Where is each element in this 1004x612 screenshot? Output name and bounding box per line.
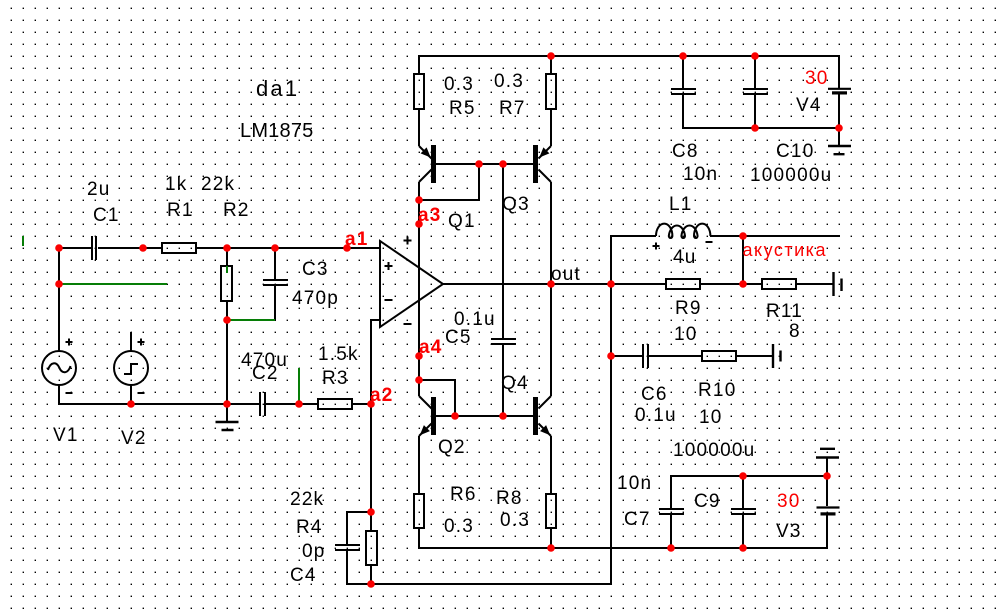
transistor Q4 xyxy=(533,396,551,436)
svg-text:470p: 470p xyxy=(292,288,339,309)
capacitor C7 xyxy=(659,509,684,514)
node C5 top xyxy=(499,160,507,168)
wire Q1 collector to Q2 collector through opamp supplies xyxy=(418,182,420,396)
node R4 bottom xyxy=(367,580,375,588)
svg-text:R9: R9 xyxy=(675,298,702,319)
svg-text:R4: R4 xyxy=(296,517,323,538)
wire V4 bottom lead xyxy=(838,94,840,128)
wire V1 bottom to C2 xyxy=(59,385,259,404)
svg-text:R3: R3 xyxy=(322,368,349,389)
wire ground lead above V3 xyxy=(826,458,828,476)
svg-text:10: 10 xyxy=(674,324,698,345)
wire C9 top lead xyxy=(742,476,744,508)
wire out node through R9 R11 to ground xyxy=(443,283,833,285)
svg-text:0p: 0p xyxy=(302,541,326,562)
svg-text:C3: C3 xyxy=(302,259,329,280)
svg-text:a4: a4 xyxy=(419,337,443,358)
wire Q1 base-collector tie xyxy=(419,164,479,200)
svg-text:100000u: 100000u xyxy=(673,440,755,461)
battery V4 xyxy=(828,88,851,90)
wire opamp -input down to a2 and R4 xyxy=(371,320,380,584)
node Q2 base tie xyxy=(451,412,459,420)
resistor R6 xyxy=(414,494,424,528)
op-amp U1 xyxy=(380,237,443,328)
svg-text:R5: R5 xyxy=(449,98,476,119)
svg-text:2u: 2u xyxy=(87,179,111,200)
transistor Q3 xyxy=(533,145,551,183)
capacitor C4 xyxy=(335,545,360,550)
resistor R5 xyxy=(414,74,424,109)
wire R7 top lead xyxy=(550,56,552,146)
wire C10 bottom lead xyxy=(754,94,756,128)
wire green R2 to C3 xyxy=(227,319,275,321)
node a1 xyxy=(343,244,351,252)
wire Q2-Q4 base bus xyxy=(436,415,533,417)
wire C7 top lead and V- cap bank rail xyxy=(671,476,827,508)
wire Q2 emitter through R6 to V- rail xyxy=(419,436,827,548)
capacitor C8 xyxy=(671,89,696,94)
wire V+ rail with R5 lead and V4 lead xyxy=(419,56,839,146)
node ground bottom xyxy=(223,400,231,408)
node C5 bottom xyxy=(499,412,507,420)
svg-text:22k: 22k xyxy=(290,489,324,510)
svg-text:V4: V4 xyxy=(796,95,822,116)
capacitor C6 xyxy=(643,344,648,368)
svg-text:LM1875: LM1875 xyxy=(240,120,313,142)
svg-text:10: 10 xyxy=(699,407,723,428)
wire V2 top stub xyxy=(130,332,132,351)
svg-text:R11: R11 xyxy=(766,301,803,322)
svg-text:Q2: Q2 xyxy=(438,437,466,458)
node input xyxy=(55,244,63,252)
node a2 xyxy=(367,400,375,408)
node R1-R2 xyxy=(223,244,231,252)
svg-text:Q1: Q1 xyxy=(448,211,476,232)
svg-text:100000u: 100000u xyxy=(750,165,832,186)
svg-text:R7: R7 xyxy=(499,98,526,119)
wire C4 branch top xyxy=(347,512,371,544)
svg-text:a1: a1 xyxy=(345,229,369,250)
svg-text:0.1u: 0.1u xyxy=(635,405,677,426)
svg-text:Q4: Q4 xyxy=(501,373,529,394)
svg-text:22k: 22k xyxy=(201,174,235,195)
svg-text:10n: 10n xyxy=(683,164,718,185)
svg-text:8: 8 xyxy=(789,321,801,342)
node out feedback xyxy=(607,280,615,288)
node Q1 collector tie xyxy=(415,196,423,204)
source V1 xyxy=(42,339,76,394)
svg-text:a3: a3 xyxy=(418,205,442,226)
ground below V4 xyxy=(828,146,851,154)
node V3 top xyxy=(823,472,831,480)
inductor L1 xyxy=(653,224,713,250)
capacitor C5 xyxy=(491,339,516,344)
node C1-R1 xyxy=(139,244,147,252)
node V1 green xyxy=(55,280,63,288)
svg-text:1k: 1k xyxy=(165,174,187,195)
resistor R4 xyxy=(366,531,377,565)
svg-text:C8: C8 xyxy=(672,141,699,162)
wire C3 bottom lead xyxy=(274,286,276,320)
wire Q3 collector to Q4 collector through out xyxy=(550,182,552,396)
wire green input mark xyxy=(22,236,24,246)
wire C6 through R10 to ground xyxy=(649,355,772,357)
node C10 bottom xyxy=(751,124,759,132)
svg-text:C7: C7 xyxy=(624,509,651,530)
resistor R7 xyxy=(546,74,556,109)
node R4 top xyxy=(367,508,375,516)
node Q2 collector tie xyxy=(415,376,423,384)
svg-text:V1: V1 xyxy=(53,425,79,446)
battery V3 xyxy=(817,506,840,508)
wire C8 top lead xyxy=(682,56,684,89)
wire C8 bottom to ground rail of V4 xyxy=(683,94,839,146)
wire out to C6 xyxy=(611,355,642,357)
svg-text:4u: 4u xyxy=(673,247,697,268)
svg-text:C6: C6 xyxy=(641,384,668,405)
svg-text:C1: C1 xyxy=(93,205,120,226)
node R2-C3 xyxy=(271,244,279,252)
node C6 branch xyxy=(607,352,615,360)
svg-text:out: out xyxy=(551,264,581,285)
svg-text:30: 30 xyxy=(805,68,829,89)
resistor R3 xyxy=(318,399,352,409)
svg-text:C5: C5 xyxy=(445,327,472,348)
svg-text:R6: R6 xyxy=(450,484,477,505)
wire feedback bottom run up to L1 xyxy=(371,236,656,584)
svg-text:a2: a2 xyxy=(370,385,394,406)
source V2 xyxy=(114,339,148,394)
svg-text:C4: C4 xyxy=(290,565,317,586)
svg-text:R8: R8 xyxy=(496,488,523,509)
node Q1 base xyxy=(475,160,483,168)
wire V3 bottom lead xyxy=(826,515,828,548)
svg-text:0.3: 0.3 xyxy=(494,71,524,92)
transistor Q2 xyxy=(419,396,436,436)
capacitor C10 xyxy=(743,89,768,94)
ground below C2 junction xyxy=(216,422,239,430)
node out Q3 xyxy=(547,280,555,288)
capacitor C2 xyxy=(260,392,265,416)
capacitor C9 xyxy=(731,509,756,514)
node a3 xyxy=(415,220,423,228)
wire green stub above C2-R3 junction xyxy=(298,368,300,403)
wire акустика vertical xyxy=(742,236,744,284)
capacitor C3 xyxy=(263,280,288,285)
wire C3 top lead xyxy=(274,248,276,279)
node C8 top xyxy=(679,52,687,60)
resistor R11 xyxy=(762,279,796,289)
svg-text:C9: C9 xyxy=(694,491,721,512)
wire Q2 collector-base tie xyxy=(419,380,455,416)
wire L1 to акустика node xyxy=(710,235,840,237)
ground above V3 xyxy=(816,449,839,458)
node R7 top xyxy=(547,52,555,60)
transistor Q1 xyxy=(419,145,436,183)
resistor R1 xyxy=(162,243,196,253)
wire C7 bottom lead xyxy=(670,515,672,548)
svg-text:0.3: 0.3 xyxy=(444,516,474,537)
node акустика xyxy=(739,232,747,240)
resistor R8 xyxy=(546,494,556,528)
resistor R9 xyxy=(666,279,700,289)
wire C1 to opamp +input through R1 xyxy=(98,247,380,249)
svg-text:C2: C2 xyxy=(252,363,279,384)
wire C5 top lead xyxy=(502,164,504,338)
wire C5 bottom lead xyxy=(502,345,504,416)
svg-text:R2: R2 xyxy=(223,200,250,221)
svg-text:акустика: акустика xyxy=(743,240,827,260)
svg-text:0.3: 0.3 xyxy=(500,510,530,531)
node C10 top xyxy=(751,52,759,60)
svg-text:C10: C10 xyxy=(776,141,814,162)
svg-text:0.3: 0.3 xyxy=(444,74,474,95)
svg-text:V2: V2 xyxy=(121,428,147,449)
node C2-R3 xyxy=(295,400,303,408)
node L1-R9 xyxy=(739,280,747,288)
svg-text:V3: V3 xyxy=(776,521,802,542)
wire Q4 emitter through R8 xyxy=(550,436,552,548)
svg-text:R10: R10 xyxy=(698,380,736,401)
svg-text:Q3: Q3 xyxy=(502,194,530,215)
svg-text:da1: da1 xyxy=(256,76,299,101)
wire V3 top lead xyxy=(826,476,828,506)
ground right of R10 xyxy=(773,344,781,368)
node V4 bottom xyxy=(835,124,843,132)
resistor R2 xyxy=(221,266,232,301)
wire Q1-Q3 base bus xyxy=(436,163,533,165)
node R2 bottom xyxy=(223,316,231,324)
node R8 bottom xyxy=(547,544,555,552)
wire C4 branch bottom xyxy=(347,551,371,584)
wire V2 bottom xyxy=(130,385,132,404)
wire green at V1 plus xyxy=(59,283,167,285)
wire C2 to node a2 through R3 xyxy=(266,403,371,405)
resistor R10 xyxy=(702,351,736,361)
svg-text:10n: 10n xyxy=(617,473,652,494)
node C7 bottom xyxy=(667,544,675,552)
svg-text:R1: R1 xyxy=(167,200,194,221)
wire C9 bottom lead xyxy=(742,515,744,548)
svg-text:1.5k: 1.5k xyxy=(318,344,359,365)
node C9 bottom xyxy=(739,544,747,552)
capacitor C1 xyxy=(92,236,96,260)
ground right of R11 xyxy=(834,272,842,296)
wire C10 top lead xyxy=(754,56,756,89)
node C9 top xyxy=(739,472,747,480)
svg-text:30: 30 xyxy=(777,491,801,512)
node V2 bottom xyxy=(127,400,135,408)
wire input to C1 and V1 top lead xyxy=(59,248,91,351)
wire green stub in R2 xyxy=(226,266,228,273)
svg-text:L1: L1 xyxy=(669,194,693,215)
node a4 xyxy=(415,352,423,360)
wire R2 branch to ground xyxy=(226,248,228,422)
